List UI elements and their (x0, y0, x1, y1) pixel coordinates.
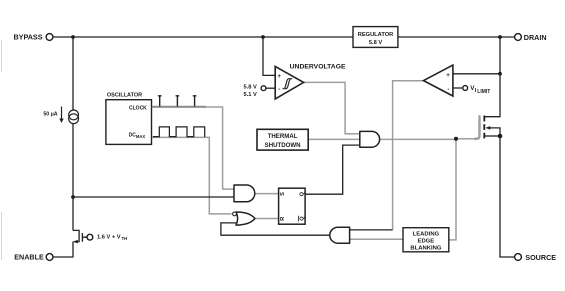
svg-text:S: S (280, 192, 286, 196)
svg-text:ENABLE: ENABLE (14, 253, 44, 262)
svg-text:TH: TH (122, 236, 128, 241)
svg-text:LEADING: LEADING (413, 232, 440, 238)
svg-text:BYPASS: BYPASS (13, 33, 42, 42)
svg-text:BLANKING: BLANKING (410, 245, 442, 251)
svg-text:CLOCK: CLOCK (129, 105, 147, 111)
svg-text:50 µA: 50 µA (43, 111, 57, 117)
svg-text:EDGE: EDGE (418, 238, 435, 244)
svg-text:MAX: MAX (136, 134, 146, 139)
svg-text:REGULATOR: REGULATOR (358, 32, 394, 38)
svg-text:5.8 V: 5.8 V (244, 85, 257, 91)
svg-text:UNDERVOLTAGE: UNDERVOLTAGE (290, 64, 346, 71)
svg-text:R: R (280, 217, 286, 221)
svg-text:-: - (278, 86, 280, 93)
svg-text:+: + (277, 73, 281, 80)
svg-text:+: + (446, 72, 450, 79)
svg-text:OSCILLATOR: OSCILLATOR (107, 92, 142, 98)
svg-text:DRAIN: DRAIN (524, 33, 547, 42)
svg-text:-: - (447, 86, 449, 93)
svg-text:5.8 V: 5.8 V (369, 40, 382, 46)
svg-text:SHUTDOWN: SHUTDOWN (265, 142, 301, 149)
svg-text:5.1 V: 5.1 V (244, 92, 257, 98)
svg-text:1.6 V + V: 1.6 V + V (97, 234, 121, 240)
svg-text:SOURCE: SOURCE (525, 253, 556, 262)
svg-text:Q: Q (299, 191, 305, 196)
svg-text:LIMIT: LIMIT (477, 89, 490, 95)
svg-text:Q: Q (299, 216, 305, 221)
svg-text:THERMAL: THERMAL (268, 133, 298, 140)
